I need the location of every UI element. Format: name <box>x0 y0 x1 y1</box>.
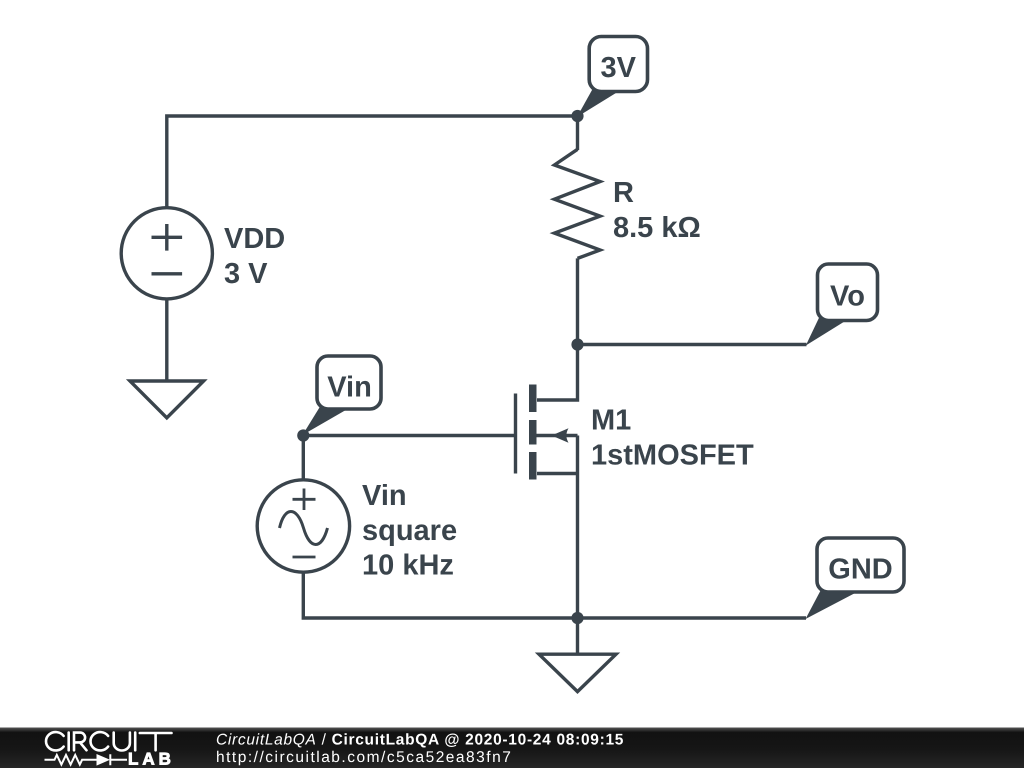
MOSFET M1 drain channel bar <box>529 385 537 413</box>
footer bar <box>0 728 1024 768</box>
ground VDD <box>130 381 204 418</box>
MOSFET arrow <box>552 428 569 442</box>
MOSFET M1 body channel bar <box>529 420 537 445</box>
source Vin circle <box>257 480 349 572</box>
VDD minus sign <box>152 272 183 275</box>
wire bottom node to ground <box>576 618 579 654</box>
Vin sine wave <box>280 512 328 545</box>
svg-text:3 V: 3 V <box>224 258 268 290</box>
voltage source VDD circle <box>121 208 212 299</box>
ground bottom <box>539 654 616 691</box>
wire vertical node to resistor <box>576 116 579 150</box>
node dot Vo <box>571 338 583 350</box>
Vin minus sign <box>293 556 316 559</box>
svg-text:Vin: Vin <box>362 480 407 512</box>
wire VDD bottom to ground <box>165 299 168 381</box>
wire top horizontal VDD to 3V node <box>167 116 578 208</box>
svg-text:GND: GND <box>828 553 892 585</box>
MOSFET M1 source channel bar <box>529 452 537 480</box>
wire Vin bottom <box>303 572 577 618</box>
svg-text:Vin: Vin <box>327 371 372 403</box>
svg-text:10 kHz: 10 kHz <box>362 550 454 582</box>
node dot Vin <box>297 429 309 441</box>
wire Vo node to Vo flag <box>578 343 807 346</box>
MOSFET gate bar <box>514 394 517 474</box>
logo diode triangle <box>97 754 111 766</box>
svg-text:R: R <box>613 177 634 209</box>
node dot 3V <box>571 110 583 122</box>
svg-text:Vo: Vo <box>830 281 865 313</box>
svg-text:CircuitLabQA / CircuitLabQA @: CircuitLabQA / CircuitLabQA @ 2020-10-24… <box>216 732 624 749</box>
svg-text:M1: M1 <box>591 405 631 437</box>
wire drain vertical <box>537 345 578 401</box>
svg-text:LAB: LAB <box>128 749 175 768</box>
wire gate lead <box>303 434 515 437</box>
GND flag tail <box>806 589 859 619</box>
node dot bottom <box>571 612 583 624</box>
MOSFET channel bars <box>297 88 858 624</box>
MOSFET body lead <box>536 434 578 437</box>
MOSFET source lead and vertical <box>537 436 578 619</box>
resistor R <box>554 149 600 258</box>
3V flag tail <box>577 88 620 117</box>
svg-text:1stMOSFET: 1stMOSFET <box>591 439 754 471</box>
Vin flag box <box>317 356 381 409</box>
svg-text:8.5 kΩ: 8.5 kΩ <box>613 212 701 244</box>
CircuitLab logo CIRCUIT <box>46 732 171 750</box>
GND flag box <box>817 538 904 592</box>
Vo flag tail <box>806 317 849 346</box>
flag boxes <box>317 37 904 593</box>
VDD plus sign <box>152 224 183 251</box>
wire bottom to GND flag <box>578 616 807 619</box>
Vo flag box <box>818 264 878 321</box>
Vin plus sign <box>293 489 316 511</box>
svg-text:square: square <box>362 515 457 547</box>
3V flag box <box>589 37 647 92</box>
svg-text:http://circuitlab.com/c5ca52ea: http://circuitlab.com/c5ca52ea83fn7 <box>216 749 512 766</box>
svg-text:3V: 3V <box>601 52 637 84</box>
logo squiggle resistor-diode <box>45 754 128 765</box>
Vin flag tail <box>303 407 349 435</box>
svg-text:VDD: VDD <box>224 223 285 255</box>
wire Vin source top <box>302 436 305 481</box>
wire resistor to Vo node <box>576 258 579 344</box>
